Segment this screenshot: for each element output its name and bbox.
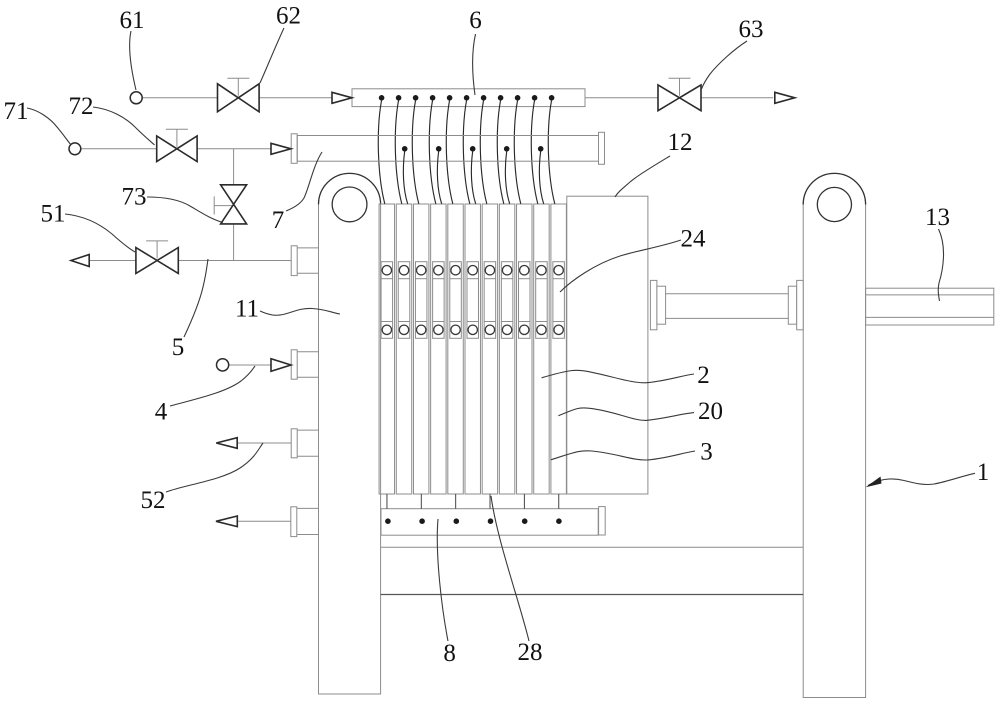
drop pipe 28 from plate 11 (558, 494, 560, 509)
hose from pipe 7 port 3 to plate pack (471, 151, 475, 204)
seal element 24 on plate 7 (484, 262, 496, 339)
svg-text:3: 3 (700, 439, 713, 466)
port dot on manifold 6 #8 (498, 95, 504, 101)
filter plate 8 of pack 2/20/3 (499, 204, 514, 494)
leader 28 (491, 496, 529, 641)
port dot on manifold 6 #10 (532, 95, 538, 101)
port dot on manifold 6 #4 (430, 95, 436, 101)
leader 8 (437, 519, 448, 641)
filter plate 3 of pack 2/20/3 (413, 204, 428, 494)
svg-text:51: 51 (41, 201, 66, 228)
port dot on pipe 7 #4 (504, 146, 510, 152)
seal element 24 on plate 2 (398, 262, 410, 339)
filter plate 7 of pack 2/20/3 (482, 204, 497, 494)
hydraulic rod 13 (866, 288, 994, 325)
filter plate 5 of pack 2/20/3 (448, 204, 463, 494)
wire: valve 62 to arrow at manifold 6 (259, 97, 332, 99)
leader 11 (260, 308, 340, 315)
filtrate stub 52 lower body (297, 507, 319, 509)
discharge manifold 8 (381, 509, 598, 536)
wire: line from port 61 to valve 62 (142, 97, 217, 99)
port dot on manifold 6 #9 (515, 95, 521, 101)
svg-text:52: 52 (141, 487, 166, 514)
svg-text:11: 11 (235, 296, 259, 323)
leader 51 (65, 214, 135, 252)
flow arrow into port 4 stub (271, 359, 291, 372)
hose from pipe 7 port 5 to plate pack (539, 151, 543, 204)
hose from manifold 6 port 10 to plate pack (531, 100, 538, 204)
movable end plate 12 (567, 196, 648, 494)
svg-text:28: 28 (518, 639, 543, 666)
leader 13 (938, 229, 943, 301)
leader 24 (560, 240, 681, 292)
wire: port 71 to valve 72 (81, 148, 157, 150)
port dot on manifold 8 #5 (522, 518, 528, 524)
hose from manifold 6 port 8 to plate pack (497, 100, 504, 204)
port dot on manifold 8 #4 (488, 518, 494, 524)
svg-text:7: 7 (272, 207, 285, 234)
svg-text:5: 5 (172, 334, 185, 361)
leader 61 (130, 31, 136, 90)
filter plate 9 of pack 2/20/3 (517, 204, 532, 494)
valve 73 (vertical) (214, 185, 246, 224)
port dot on pipe 7 #1 (402, 146, 408, 152)
svg-text:12: 12 (668, 129, 693, 156)
hose from manifold 6 port 5 to plate pack (446, 100, 453, 204)
feed stub on plate 11 (port 4) body (297, 351, 318, 353)
discharge manifold 8 end cap (599, 507, 606, 535)
svg-text:20: 20 (698, 398, 723, 425)
seal element 24 on plate 6 (467, 262, 479, 339)
port dot on pipe 7 #3 (470, 146, 476, 152)
leader 52 (166, 443, 263, 492)
hose from manifold 6 port 6 to plate pack (463, 100, 470, 204)
port dot on pipe 7 #5 (538, 146, 544, 152)
washing pipe 7 right end cap (599, 132, 605, 164)
seal element 24 on plate 1 (381, 262, 393, 339)
leader 5 (184, 259, 208, 337)
wire: valve 51 to drain stub 5 (178, 260, 291, 262)
hose from manifold 6 port 4 to plate pack (429, 100, 436, 204)
flow arrow out of stub 52 upper (216, 438, 237, 449)
drop pipe 28 from plate 1 (386, 494, 388, 509)
seal element 24 on plate 4 (433, 262, 445, 339)
filter plate 4 of pack 2/20/3 (431, 204, 446, 494)
seal element 24 on plate 3 (415, 262, 427, 339)
filtrate stub 52 upper body (297, 429, 318, 431)
hose from pipe 7 port 2 to plate pack (437, 151, 441, 204)
drop pipe 28 from plate 7 (489, 494, 491, 509)
valve 62 (218, 78, 260, 112)
flow arrow into manifold 6 (332, 92, 352, 103)
hose from manifold 6 port 11 to plate pack (548, 100, 555, 204)
feed manifold 6 (352, 89, 585, 107)
washing pipe 7 flange (291, 134, 297, 164)
leader 71 (27, 108, 71, 145)
wire: valve 72 to arrow at pipe 7 (197, 148, 271, 150)
svg-text:63: 63 (739, 16, 764, 43)
wire: drain arrow to valve 51 (89, 260, 136, 262)
leader 72 (93, 107, 155, 145)
seal element 24 on plate 8 (501, 262, 513, 339)
seal element 24 on plate 10 (536, 262, 548, 339)
hose from pipe 7 port 4 to plate pack (505, 151, 509, 204)
valve 63 (658, 78, 701, 111)
wire: stub 52 upper to left arrow (237, 442, 291, 444)
leader 2 (542, 370, 694, 383)
flow arrow into pipe 7 (271, 143, 291, 154)
leader 62 (260, 28, 284, 83)
drop pipe 28 from plate 9 (523, 494, 525, 509)
wire: valve 73 down to drain line (233, 224, 235, 261)
port dot on manifold 6 #3 (413, 95, 419, 101)
flow arrow out of stub 52 lower (216, 516, 237, 527)
drain stub on plate 11 (line 5) flange (291, 246, 297, 276)
port dot on manifold 8 #3 (454, 518, 460, 524)
filtrate stub 52 upper flange (291, 429, 297, 458)
leader 20 (558, 408, 694, 420)
port dot on manifold 6 #6 (464, 95, 470, 101)
hose from manifold 6 port 1 to plate pack (378, 100, 385, 204)
flow arrow at valve 63 outlet (775, 92, 795, 103)
port circle 61 (130, 92, 142, 104)
port dot on manifold 6 #5 (447, 95, 453, 101)
hose from pipe 7 port 1 to plate pack (403, 151, 407, 204)
drop pipe 28 from plate 3 (420, 494, 422, 509)
svg-text:24: 24 (681, 226, 707, 253)
svg-text:8: 8 (443, 640, 456, 667)
port dot on manifold 8 #6 (556, 518, 562, 524)
leader 3 (551, 451, 695, 460)
flow arrow out of drain line 5 (71, 255, 89, 267)
wire: valve 63 to outlet arrow (701, 97, 773, 99)
fixed head plate 11 column (319, 173, 381, 694)
seal element 24 on plate 5 (450, 262, 462, 339)
feed stub on plate 11 (port 4) flange (291, 350, 297, 379)
hose from manifold 6 port 9 to plate pack (514, 100, 521, 204)
svg-text:2: 2 (697, 362, 710, 389)
svg-text:13: 13 (925, 204, 950, 231)
seal element 24 on plate 11 (553, 262, 565, 339)
hose from manifold 6 port 2 to plate pack (395, 100, 402, 204)
svg-text:1: 1 (977, 459, 990, 486)
hose from manifold 6 port 7 to plate pack (480, 100, 487, 204)
drop pipe 28 from plate 5 (455, 494, 457, 509)
right support stand 1 (803, 173, 865, 697)
wire: manifold 6 to valve 63 (585, 97, 658, 99)
filter plate 10 of pack 2/20/3 (534, 204, 549, 494)
svg-text:73: 73 (122, 184, 147, 211)
base beam between stands (381, 547, 804, 594)
port dot on manifold 8 #1 (385, 518, 391, 524)
filter plate 2 of pack 2/20/3 (396, 204, 411, 494)
port dot on manifold 6 #7 (481, 95, 487, 101)
washing pipe 7 body (297, 136, 598, 162)
filter plate 11 of pack 2/20/3 (551, 204, 566, 494)
port circle 4 (217, 359, 229, 371)
filter plate 1 of pack 2/20/3 (379, 204, 394, 494)
port dot on pipe 7 #2 (436, 146, 442, 152)
drain stub on plate 11 (line 5) body (297, 247, 318, 249)
piston assembly between plate 12 and stand (650, 280, 803, 329)
port dot on manifold 6 #11 (549, 95, 555, 101)
svg-text:72: 72 (69, 93, 94, 120)
svg-text:6: 6 (469, 7, 482, 34)
wire: stub 52 lower to left arrow (237, 520, 290, 522)
svg-text:71: 71 (4, 98, 29, 125)
leader arrow for label 1 (866, 473, 975, 487)
hose from manifold 6 port 3 to plate pack (412, 100, 419, 204)
port dot on manifold 6 #1 (379, 95, 385, 101)
port circle 71 (69, 143, 81, 155)
leader 7 (286, 152, 322, 211)
port dot on manifold 8 #2 (419, 518, 425, 524)
svg-text:4: 4 (155, 399, 168, 426)
filtrate stub 52 lower flange (291, 507, 297, 537)
leader 63 (702, 41, 748, 89)
wire: port 4 circle to arrow (229, 364, 271, 366)
filter plate 6 of pack 2/20/3 (465, 204, 480, 494)
leader 73 (147, 197, 223, 223)
seal element 24 on plate 9 (519, 262, 531, 339)
leader 12 (615, 156, 670, 197)
svg-text:61: 61 (120, 7, 145, 34)
leader 4 (170, 366, 255, 406)
svg-text:62: 62 (276, 3, 301, 30)
valve 72 (157, 129, 197, 161)
valve 51 (136, 241, 178, 274)
wire: junction down to valve 73 (233, 149, 235, 185)
leader 6 (473, 34, 476, 95)
port dot on manifold 6 #2 (396, 95, 402, 101)
